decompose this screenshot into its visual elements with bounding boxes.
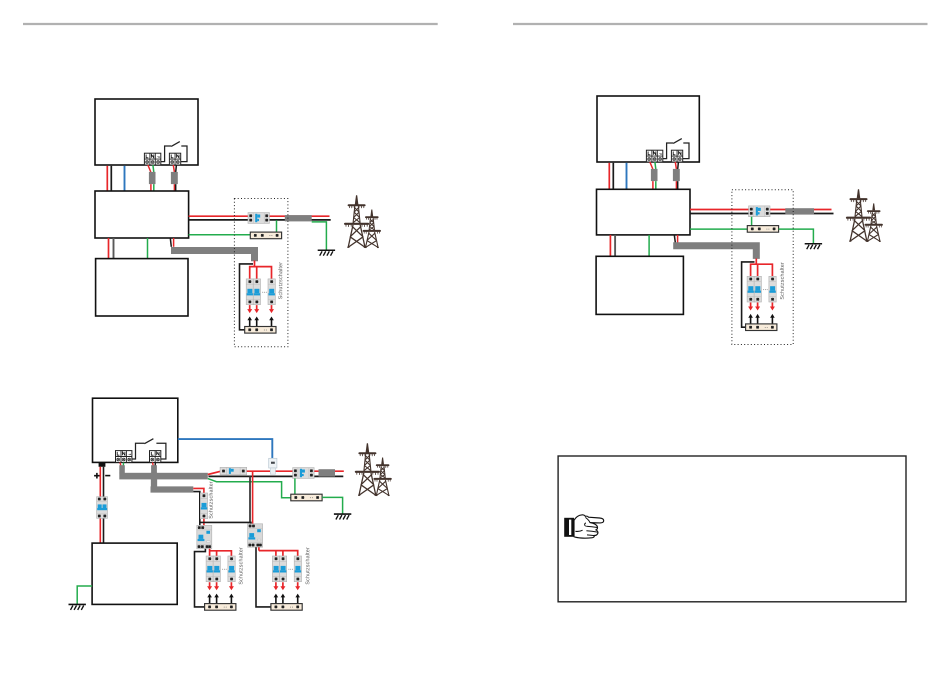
battery terminal block [99,462,106,466]
box: battery (bottom) [92,543,177,604]
wire comm blue box1-box2 [124,166,126,191]
wire red from lower conduit to v-breaker [193,488,204,493]
wire black tap to RCD right [249,476,251,522]
wire black feeder to strip [240,264,254,330]
switch symbol [161,142,187,162]
manicule pointing hand [564,515,604,538]
label plus [94,473,100,479]
breaker 2-pole battery [97,497,108,519]
label Schutzschalter right group [305,547,309,584]
power pylons [344,195,381,247]
label Schutzschalter backup [209,481,213,518]
wire battery minus black [103,467,105,543]
wire L red box1-box2 [608,163,610,190]
breaker 2-pole grid-side [293,468,314,479]
terminal block L/N/PE [646,150,662,162]
ground grid-side [334,514,351,519]
box: backup load box (top) [95,99,198,165]
box: inverter (middle) [597,189,691,235]
conduit grid-side [285,215,312,221]
terminal block L/N (grid) [169,153,180,165]
wire black feeder strip left [195,549,206,607]
wire L red box1-box2 [106,166,108,191]
conduit lower L [151,473,194,490]
conduit grid-side [319,469,336,476]
box: inverter (middle) [95,191,189,238]
MCB group backup loads left [205,556,236,610]
header rule left page [23,23,438,25]
power pylons [846,189,883,241]
switch symbol [663,139,689,159]
wire black feeder strip right [256,547,271,607]
RCD right [248,524,263,547]
energy meter [269,458,277,474]
wire battery plus red [99,467,101,543]
wire red box2-box3 [108,238,110,259]
switch symbol [132,439,166,459]
breaker 2-pole grid-side [248,213,269,224]
wire grey box2-box3 [614,235,616,256]
label Schutzschalter [278,262,282,299]
RCD left [197,525,212,548]
wire red v-breaker to RCD [203,519,205,526]
terminal strip PE [250,232,281,239]
ground grid-side [805,244,822,249]
wire black feeder to strip [742,262,755,327]
wire green tap from breaker2 [294,478,296,494]
wire red diagonal to breaker1 [208,471,221,474]
wire green into gland1 [654,162,657,189]
terminal block L/N [150,451,161,463]
terminal block L/N [671,150,682,162]
wire red into gland1 [650,162,653,189]
wire green tap to strip [751,217,753,226]
wire green box2-box3 [648,235,650,256]
wire red feeder to MCB group [250,261,272,279]
box: backup load box (top right page) [597,96,699,162]
wire red stub into conduit [677,235,679,243]
wire black link RCDs [200,522,251,524]
wire comm blue to meter [178,439,272,458]
wire red feeder to MCB group [751,259,773,277]
wire N black box1-box2 [612,163,614,190]
wire green tap to strip [276,220,278,232]
wire PE green to strip [690,228,747,230]
wire black into gland2 [175,165,178,191]
cable gland 1 [119,465,125,473]
wire PE green to strip [189,234,251,236]
wire L red bus to grid [690,209,832,211]
wire black stub into conduit [674,235,675,243]
dashed distribution box [234,199,288,347]
label Schutzschalter left group [239,547,243,584]
wire N black bus [209,475,344,477]
conduit upper bar [119,473,208,480]
power pylons [355,443,392,495]
wire green to ground [779,229,814,243]
cable gland 1 [651,169,658,181]
MCB group load breakers [746,276,777,330]
conduit to load breakers (L-shape) [171,251,255,262]
wire green to ground [322,497,343,513]
wire green to ground [312,222,327,250]
terminal block L/N/PE [116,451,132,463]
ground grid-side [318,250,335,255]
note box [558,456,906,602]
wire red into gland2 [173,165,174,191]
terminal block L/N/PE (backup) [144,153,160,165]
terminal strip PE [291,494,322,501]
MCB group load breakers [245,279,276,333]
wire black into gland2 [677,162,680,189]
label Schutzschalter [780,262,784,299]
wire green box2-box3 [147,238,149,259]
breaker 1-pole AC [220,467,247,475]
wire N black bus to grid [189,219,331,221]
wire black stub into conduit [170,238,171,247]
wire L red bus [247,470,344,472]
conduit to load breakers (L-shape) [673,246,756,259]
wire grey box2-box3 [113,238,115,259]
wire green battery ground [77,586,92,604]
breaker 2-pole grid-side [749,206,770,217]
cable gland 1 [149,172,156,184]
wire black from lower conduit [193,492,200,526]
MCB group backup loads right [271,556,302,610]
box: battery (bottom) [596,256,683,314]
box: battery (bottom) [96,259,188,316]
box: backup load box (bottom diagram) [93,398,178,462]
wire red stub into conduit [173,238,175,247]
wire black stub gland2 [154,462,156,465]
header rule right page [513,23,928,25]
dashed distribution box [732,190,793,345]
wire red tap to RCD right [252,471,254,524]
conduit grid-side [785,208,814,214]
wire PE green bus [208,479,291,498]
wire red into gland1 [148,165,151,191]
cable gland 2 [151,465,157,473]
wire stubs into gland1 [120,462,121,465]
wire L red bus to grid [189,215,330,217]
wire red into gland2 [675,162,676,189]
wire comm blue box1-box2 [626,163,628,190]
wire red box2-box3 [609,235,611,256]
breaker backup Schutzschalter [200,493,207,519]
cable gland 2 [673,169,680,181]
wire red stub gland2 [152,462,155,465]
cable gland 2 [171,172,178,184]
label minus [105,475,110,477]
wire red feeder group right [259,547,298,556]
terminal strip PE [747,226,778,233]
wire green into gland1 [152,165,155,191]
wire red feeder group left [210,549,232,556]
wire green stub gland1 [122,462,124,465]
wire N black box1-box2 [110,166,112,191]
wire N black bus to grid [690,213,834,215]
ground battery-side [69,604,86,609]
